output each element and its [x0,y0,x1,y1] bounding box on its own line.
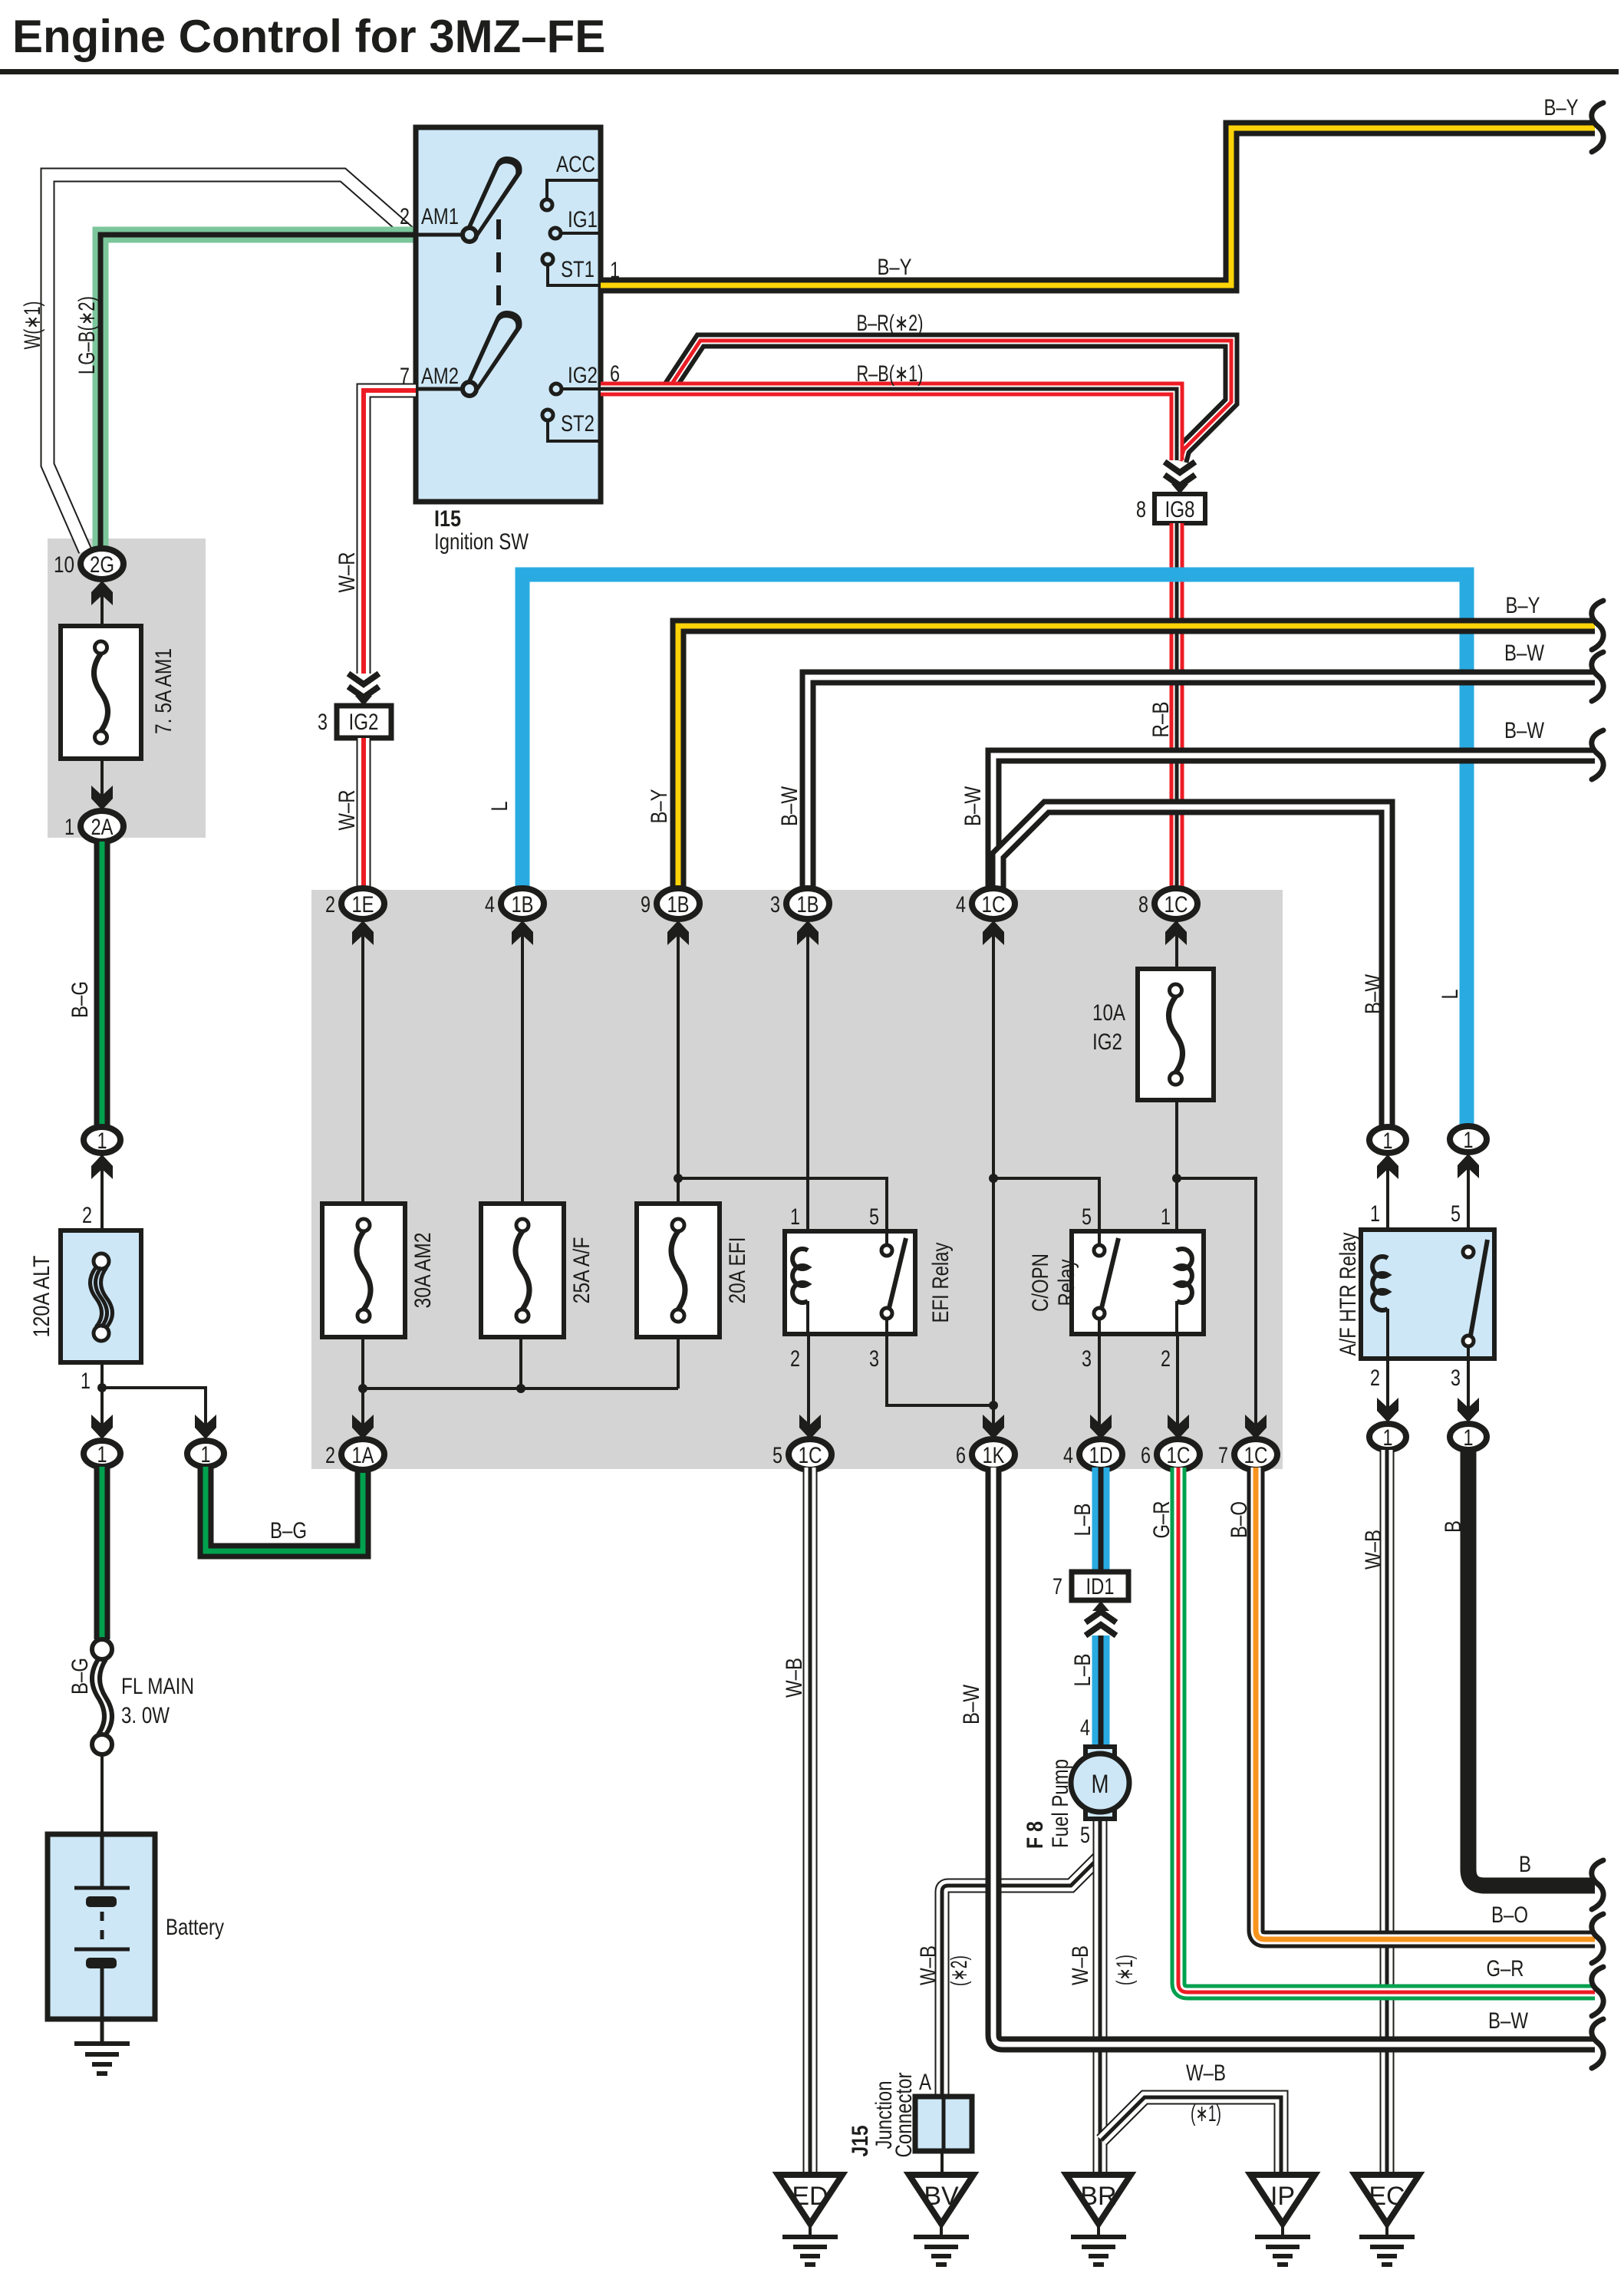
svg-text:1: 1 [81,1369,91,1394]
wire 25A A/F bottom [519,1337,522,1388]
svg-text:4: 4 [485,892,495,917]
svg-text:M: M [1092,1770,1109,1799]
hook B-O [1592,1914,1603,1963]
A/F HTR relay box [1361,1230,1494,1359]
battery ground [74,2041,130,2046]
junction dot EFI pin3 [989,1401,998,1410]
svg-text:IG2: IG2 [349,710,379,735]
wire EFI relay pin2 to 5(1C) [806,1301,809,1334]
wire B-Y from 9(1B) to right edge [678,626,1595,890]
svg-text:8: 8 [1138,892,1148,917]
svg-text:2: 2 [790,1346,800,1372]
arrow above 6(1K) [983,1415,1004,1439]
svg-text:5: 5 [1451,1201,1461,1227]
svg-text:B–W: B–W [959,1684,984,1724]
wire to A/F relay pin5 [1467,1152,1470,1247]
svg-text:1A: 1A [352,1443,374,1468]
connector 1 (L into A/F HTR relay) [1450,1126,1487,1152]
ignition switch ACC terminal [547,180,601,199]
svg-text:ID1: ID1 [1086,1574,1115,1599]
connector 2(1A) [341,1439,384,1470]
svg-text:G–R: G–R [1149,1501,1174,1539]
fuse 10A IG2 [1138,969,1214,1100]
arrow into IG2 [348,674,379,697]
ignition switch AM2 terminal lead [416,387,465,391]
svg-text:1: 1 [1161,1204,1171,1230]
wire B-W from 6(1K) to right edge [993,1468,1595,2044]
svg-text:1D: 1D [1089,1443,1113,1468]
svg-text:2: 2 [1370,1365,1380,1391]
ignition switch ST2 terminal [548,420,601,441]
svg-text:B–G: B–G [68,1658,93,1695]
svg-text:1: 1 [1383,1128,1393,1154]
svg-text:9: 9 [641,892,651,917]
svg-text:LG–B(∗2): LG–B(∗2) [74,296,100,374]
wire W-B(*2) branch to J15 [942,1856,1100,2097]
svg-text:W–B: W–B [916,1945,941,1985]
svg-text:F 8: F 8 [1023,1821,1048,1849]
connector 3(1B) [786,888,829,919]
svg-text:5: 5 [1080,1823,1090,1848]
ignition switch I15 box [416,127,601,502]
wire B-G from 2A to connector 1 [94,842,110,1126]
ignition switch AM1 terminal lead [416,233,465,237]
arrow above 4(1D) [1090,1415,1112,1439]
wire W(*1) from AM1 to connector 2G [48,175,410,551]
svg-text:25A A/F: 25A A/F [569,1237,595,1304]
branch to EFI relay pin 5 [678,1178,887,1231]
svg-text:3: 3 [1082,1346,1092,1372]
hook B-W 1 [1592,652,1603,701]
svg-text:AM1: AM1 [421,204,459,229]
svg-text:J15: J15 [848,2126,873,2157]
wire 4(1C) to 6(1K) [992,919,995,1425]
svg-text:6: 6 [956,1443,966,1468]
svg-text:B–R(∗2): B–R(∗2) [857,311,924,336]
svg-text:1E: 1E [352,892,374,917]
svg-text:1: 1 [1464,1425,1474,1451]
svg-text:7: 7 [1218,1443,1228,1468]
fusible link FL MAIN 3.0W [92,1639,112,1659]
wire B-G from right connector 1 to 2(1A) [206,1467,363,1551]
svg-text:Connector: Connector [891,2072,917,2157]
arrow into IG8 [1164,462,1195,486]
svg-text:ED: ED [792,2182,828,2211]
connector ID1 (pin 7) [1072,1572,1128,1600]
svg-text:C/OPN: C/OPN [1028,1253,1053,1312]
connector 1 (above alternator) [84,1127,120,1153]
svg-text:2: 2 [325,892,335,917]
hook B-Y right [1592,601,1603,650]
svg-text:1: 1 [790,1204,800,1230]
wire W-R from AM2 to IG2 connector [364,390,416,674]
svg-text:5: 5 [772,1443,782,1468]
connector 1 (below A/F relay right) [1450,1424,1487,1450]
wire 1E to fuse 30A AM2 [361,919,364,1204]
ignition switch AM1 pivot contact [463,228,476,242]
svg-text:7: 7 [1052,1574,1062,1599]
svg-text:7. 5A AM1: 7. 5A AM1 [151,648,176,734]
svg-text:L–B: L–B [1070,1504,1095,1537]
svg-text:B–Y: B–Y [1544,95,1579,120]
svg-text:FL MAIN: FL MAIN [121,1674,194,1699]
svg-text:B–W: B–W [1361,973,1386,1014]
svg-text:4: 4 [1080,1715,1090,1741]
svg-text:1: 1 [1383,1425,1393,1451]
svg-text:1: 1 [97,1128,107,1154]
wire J15 to BV [940,2151,944,2177]
connector 4(1C) [972,888,1015,919]
connector IG8 (pin 8) [1155,494,1205,523]
svg-text:B–W: B–W [1504,641,1545,666]
hook B-W 2 [1592,730,1603,779]
svg-text:3: 3 [770,892,780,917]
wire B-R(*2) from IG2 to IG8 [667,341,1231,461]
wire B from connector 1 to right edge [1468,1450,1595,1886]
ignition switch AM2 pivot contact [463,382,476,396]
hook G-R [1592,1967,1603,2016]
wire B-O from 7(1C) to right edge [1256,1468,1595,1939]
wire fuse to 2A [100,759,104,812]
svg-text:120A ALT: 120A ALT [29,1256,54,1338]
svg-text:R–B: R–B [1148,702,1174,738]
connector 2G (pin 10) [81,548,124,579]
svg-text:1B: 1B [667,892,690,917]
C/OPN relay box [1072,1231,1204,1334]
svg-text:IG2: IG2 [1092,1029,1122,1055]
svg-text:1C: 1C [799,1443,822,1468]
wire B-G from connector 1 to FL MAIN [94,1467,110,1639]
svg-text:BV: BV [924,2182,959,2211]
junction dot at 25A A/F [516,1384,525,1393]
svg-text:W(∗1): W(∗1) [20,301,45,350]
arrow above 2(1A) [352,1415,374,1439]
svg-text:1: 1 [64,815,74,840]
svg-text:L: L [1438,990,1463,1000]
hook B-Y top [1592,103,1603,152]
wire 30A AM2 to 2(1A) with bus [361,1337,364,1425]
svg-text:(∗1): (∗1) [1191,2101,1221,2126]
svg-text:W–B: W–B [1068,1945,1093,1985]
svg-text:W–B: W–B [782,1658,807,1698]
connector IG2 (pin 3) [337,706,391,738]
wire A/F relay pin3 down [1467,1346,1470,1424]
connector 7(1C) [1234,1439,1277,1470]
svg-text:8: 8 [1136,497,1146,522]
svg-text:2: 2 [1161,1346,1171,1372]
svg-text:ACC: ACC [556,152,595,177]
svg-text:B–Y: B–Y [647,789,672,824]
connector 2A (pin 1) [81,811,124,842]
connector 8(1C) [1155,888,1197,919]
arrow above left connector 1 [91,1415,113,1439]
branch to 7(1C) [1177,1178,1256,1425]
wire R-B(*1) from IG2 to IG8 [601,389,1177,460]
wire 10A IG2 to C/OPN relay pin 1 [1175,1100,1178,1250]
wire B-W from 4(1C) to right edge [993,756,1595,890]
hook B [1592,1860,1603,1909]
connector 1 (B-W into A/F HTR relay) [1369,1127,1406,1153]
wire L-B from ID1 to fuel pump pin 4 [1092,1636,1110,1748]
junction dot EFI relay pin5 branch [674,1174,683,1183]
ground ED [778,2175,842,2224]
wire 8(1C) to fuse 10A IG2 [1175,919,1178,969]
wire B-W from 3(1B) to right edge [808,677,1595,890]
svg-text:IG8: IG8 [1165,497,1195,522]
wire R-B from IG8 to 8(1C) [1170,523,1184,890]
fuse 30A AM2 [322,1204,405,1337]
svg-text:1C: 1C [1164,892,1188,917]
wire W-B from 5(1C) to ED [803,1468,818,2177]
connector 1 (right, to 1A) [187,1441,224,1467]
svg-text:W–B: W–B [1186,2060,1226,2086]
wire C/OPN pin3 to 4(1D) [1098,1334,1101,1425]
arrow below 2G [100,579,104,626]
wire FL MAIN to battery [100,1754,104,1837]
junction dot at 30A AM2 bus [358,1384,367,1393]
svg-text:5: 5 [869,1204,879,1230]
connector 4(1D) [1079,1439,1122,1470]
svg-text:B–Y: B–Y [878,255,912,280]
svg-text:W–R: W–R [334,790,360,831]
svg-text:Relay: Relay [1054,1260,1079,1306]
svg-text:4: 4 [956,892,966,917]
svg-text:B–W: B–W [1488,2008,1529,2034]
arrow above 7(1C) [1245,1415,1267,1439]
wire LG-B(*2) from AM1 to connector 2G [100,235,416,550]
svg-text:1: 1 [1464,1128,1474,1153]
arrow above right connector 1 [195,1415,216,1439]
svg-text:1C: 1C [1167,1443,1191,1468]
svg-text:B: B [1519,1852,1531,1877]
svg-text:4: 4 [1063,1443,1073,1468]
wire G-R from 6(1C) to right edge [1178,1468,1595,1992]
ignition switch rotor blade (AM2) [466,311,522,394]
svg-text:2: 2 [82,1203,92,1228]
ignition switch IG1 terminal [561,232,601,235]
EFI relay switch [885,1231,888,1246]
svg-text:L–B: L–B [1070,1654,1095,1687]
ignition switch rotor blade (AM1) [466,156,522,239]
connector 5(1C) [789,1439,832,1470]
wire 9(1B) to fuse 20A EFI [677,919,680,1204]
EFI relay coil [792,1249,808,1303]
svg-text:B–G: B–G [270,1518,307,1543]
svg-text:2: 2 [400,204,410,229]
connector 2(1E) [341,888,384,919]
svg-text:A/F HTR Relay: A/F HTR Relay [1336,1233,1361,1356]
A/F HTR relay coil [1372,1257,1388,1310]
fuse 25A A/F [481,1204,564,1337]
alternator fuse 120A ALT [61,1230,141,1362]
svg-text:A: A [919,2070,931,2095]
svg-text:1K: 1K [983,1443,1005,1468]
fuse 7.5A AM1 [61,626,141,759]
svg-text:G–R: G–R [1487,1956,1524,1981]
branch to C/OPN relay pin 5 [993,1178,1099,1231]
svg-text:B–W: B–W [1504,718,1545,743]
ground BV [909,2175,973,2224]
arrow above 5(1C) [799,1415,821,1439]
svg-text:1C: 1C [982,892,1006,917]
svg-text:6: 6 [1141,1443,1151,1468]
svg-text:B–W: B–W [777,786,802,826]
ignition switch ST1 terminal [548,265,601,285]
wire A/F relay pin2 down [1386,1309,1389,1424]
svg-text:1C: 1C [1244,1443,1268,1468]
svg-text:ST1: ST1 [561,257,595,282]
svg-text:B: B [1441,1520,1466,1533]
svg-text:1B: 1B [797,892,819,917]
wire W-R from IG2 to 2(1E) [357,738,371,890]
svg-text:3. 0W: 3. 0W [121,1703,170,1728]
connector 9(1B) [657,888,700,919]
arrow out of ID1 [1092,1601,1109,1611]
wire L-B from 4(1D) to ID1 [1092,1468,1110,1572]
svg-text:5: 5 [1082,1204,1092,1230]
svg-text:1: 1 [97,1442,107,1468]
arrow above 2A [91,786,113,810]
junction node below alternator [97,1383,107,1392]
svg-text:L: L [487,802,512,812]
svg-text:IG1: IG1 [568,207,598,232]
svg-text:2G: 2G [90,552,114,578]
svg-text:R–B(∗1): R–B(∗1) [857,361,924,387]
connector 1 (below A/F relay left) [1369,1424,1406,1450]
wire B-Y from ST1 to right edge (top) [601,128,1595,285]
svg-text:2A: 2A [91,815,114,840]
connector 6(1C) [1157,1439,1200,1470]
svg-text:Ignition SW: Ignition SW [434,529,529,555]
svg-text:(∗1): (∗1) [1112,1955,1138,1985]
title underline rule [0,69,1619,74]
svg-text:ST2: ST2 [561,411,595,436]
svg-text:3: 3 [318,710,328,735]
connector 6(1K) [972,1439,1015,1470]
svg-text:B–W: B–W [960,786,986,826]
svg-text:IG2: IG2 [568,363,598,388]
svg-text:B–O: B–O [1491,1902,1528,1928]
gray fuse-block background (7.5A AM1) [48,539,206,838]
svg-text:10: 10 [54,552,74,578]
wire B-W from 4(1C) to A/F HTR relay pin 1 [998,807,1387,1126]
svg-text:Fuel Pump: Fuel Pump [1048,1759,1073,1848]
svg-text:EFI Relay: EFI Relay [928,1243,954,1323]
wire below alternator [100,1362,104,1425]
svg-text:W–R: W–R [334,552,360,593]
arrow above 6(1C) [1168,1415,1189,1439]
wire W-B from A/F relay to EC [1380,1450,1395,2177]
C/OPN relay coil [1177,1249,1192,1303]
svg-text:Engine Control for 3MZ–FE: Engine Control for 3MZ–FE [12,11,605,62]
svg-text:I15: I15 [434,506,461,532]
svg-text:B–G: B–G [68,981,93,1018]
wire L (blue) from 4(1B) to A/F HTR relay pin 5 [522,575,1467,1126]
A/F HTR relay switch [1471,1240,1487,1336]
wire EFI relay pin3 to 4(1C) column [887,1334,993,1405]
svg-text:20A EFI: 20A EFI [725,1237,750,1304]
EFI relay box [785,1231,915,1334]
svg-text:B–Y: B–Y [1506,593,1540,618]
hook B-W bottom [1592,2019,1603,2068]
svg-text:1B: 1B [512,892,534,917]
svg-text:3: 3 [1451,1365,1461,1391]
svg-text:AM2: AM2 [421,364,459,389]
fuel pump F8 motor [1085,1747,1115,1761]
gray relay-block background (main) [311,890,1283,1469]
svg-text:10A: 10A [1092,1000,1125,1026]
junction dot C/OPN pin5 branch [989,1174,998,1183]
svg-text:Battery: Battery [166,1915,224,1940]
junction connector J15 [915,2097,972,2151]
svg-text:IP: IP [1270,2182,1295,2211]
svg-text:W–B: W–B [1361,1530,1386,1570]
ignition switch IG2 terminal [562,387,601,390]
wire W-B(*1) branch to IP [1102,2097,1281,2177]
svg-text:1: 1 [201,1442,211,1468]
svg-text:(∗2): (∗2) [947,1955,972,1986]
wire C/OPN pin2 to 6(1C) [1175,1301,1178,1334]
wire 3(1B) to EFI relay pin 1 [806,919,809,1250]
ignition switch rotor dashed link [496,219,501,316]
svg-text:30A AM2: 30A AM2 [410,1233,436,1309]
svg-text:2: 2 [325,1443,335,1468]
ground IP [1250,2175,1315,2224]
junction dot 7(1C) branch [1172,1174,1181,1183]
svg-text:3: 3 [869,1346,879,1372]
svg-text:BR: BR [1080,2182,1116,2211]
battery [48,1834,155,2019]
wire 20A EFI bottom [677,1337,680,1388]
branch wire to right connector 1 [102,1388,206,1425]
ground BR [1066,2175,1131,2224]
wire to A/F relay pin1 [1386,1153,1389,1258]
C/OPN relay switch [1098,1231,1101,1246]
svg-text:B–O: B–O [1227,1501,1252,1538]
svg-text:1: 1 [1370,1201,1380,1227]
ground EC [1355,2175,1419,2224]
arrow below connector 1 [100,1153,104,1230]
connector 1 (left, to FL MAIN) [84,1441,120,1467]
svg-text:EC: EC [1369,2182,1405,2211]
connector 4(1B) [501,888,544,919]
wire W-B from fuel pump to BR [1093,1817,1108,2177]
wire 4(1B) to fuse 25A A/F [521,919,524,1204]
fuse 20A EFI [637,1204,720,1337]
